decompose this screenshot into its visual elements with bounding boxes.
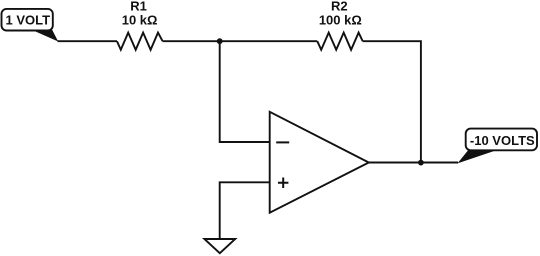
wire output from op-amp apex [369,162,458,164]
op-amp plus pin symbol [278,178,288,189]
node junction at output/feedback [418,160,424,166]
svg-text:R2: R2 [331,0,348,13]
wire R2 to feedback right drop to output [363,41,421,162]
svg-text:-10 VOLTS: -10 VOLTS [470,133,535,148]
ground [204,239,235,253]
svg-text:1 VOLT: 1 VOLT [6,13,51,28]
wire input from source label to R1 [58,40,118,42]
op-amp U1 [270,112,369,213]
resistor R2 [317,33,362,50]
callout 1 VOLT box [2,9,53,31]
callout -10 VOLTS tail [458,150,497,163]
resistor R1 [117,33,163,50]
svg-text:10 kΩ: 10 kΩ [122,12,158,27]
op-amp minus pin symbol [276,141,289,143]
callout 1 VOLT tail [31,30,58,42]
callout -10 VOLTS box [466,129,537,151]
node junction at R1/R2 input [217,38,223,44]
svg-text:100 kΩ: 100 kΩ [319,12,362,27]
wire R1 to junction node [163,40,220,42]
svg-text:R1: R1 [130,0,147,13]
wire non-inverting input to ground drop [220,182,269,239]
wire junction down to inverting input [220,41,269,142]
wire junction to R2 (feedback top-left) [220,40,318,42]
